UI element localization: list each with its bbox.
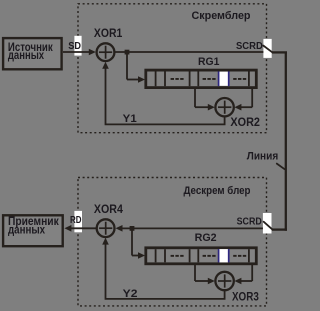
svg-text:SD: SD (68, 41, 81, 52)
svg-text:SCRD: SCRD (236, 41, 263, 52)
svg-text:Y2: Y2 (123, 288, 138, 300)
svg-text:RD: RD (70, 215, 82, 226)
svg-text:Скремблер: Скремблер (192, 10, 251, 22)
svg-text:Дескрем блер: Дескрем блер (184, 185, 251, 197)
svg-text:XOR4: XOR4 (94, 202, 123, 216)
svg-text:Линия: Линия (247, 151, 278, 163)
svg-text:RG1: RG1 (198, 56, 219, 68)
svg-text:Y1: Y1 (123, 113, 137, 125)
svg-text:данных: данных (8, 222, 45, 236)
svg-text:данных: данных (8, 48, 44, 62)
svg-text:XOR3: XOR3 (232, 289, 259, 303)
svg-text:RG2: RG2 (195, 232, 217, 244)
svg-text:XOR2: XOR2 (230, 115, 260, 129)
svg-text:XOR1: XOR1 (94, 26, 123, 40)
svg-text:SCRD: SCRD (237, 217, 263, 228)
